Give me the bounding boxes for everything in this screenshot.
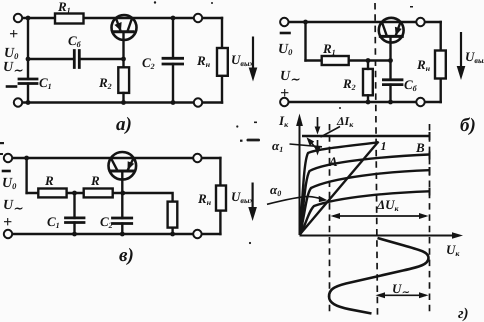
wire: branch down from top rail xyxy=(304,22,306,61)
svg-text:+: + xyxy=(9,26,18,43)
terminal: input top circuit a xyxy=(14,14,22,22)
U~ arrowhead left xyxy=(376,292,386,298)
capacitor C1 circuit v xyxy=(73,193,75,234)
svg-text:а): а) xyxy=(116,114,132,135)
capacitor C5 (Cb) xyxy=(74,51,79,68)
resistor R first circuit v xyxy=(38,189,66,198)
capacitor C2 with vertical wire xyxy=(172,18,174,103)
delta Ik arrowhead upper xyxy=(315,127,321,135)
svg-text:б): б) xyxy=(460,115,476,136)
wire: top rail of circuit a xyxy=(22,17,222,19)
wire: bottom rail of circuit a xyxy=(22,101,222,103)
resistor R second circuit v xyxy=(84,189,113,198)
alpha0 arrowhead xyxy=(319,196,328,202)
alpha1 pointer line xyxy=(290,144,323,147)
terminal: input top circuit b xyxy=(280,18,288,26)
U~ double arrow below axis xyxy=(379,294,427,296)
terminal: input bottom circuit v xyxy=(4,230,12,238)
wire: top rail of circuit v xyxy=(12,157,220,159)
emitter arrow transistor a xyxy=(114,22,121,31)
wire: base lead xyxy=(122,32,124,59)
wire: branch down to middle row xyxy=(25,158,27,193)
resistor R2 circuit b xyxy=(363,69,373,95)
svg-text:A: A xyxy=(328,154,338,169)
terminal: input top circuit v xyxy=(4,154,12,162)
terminal: output bottom circuit b xyxy=(416,98,424,106)
wire: right vertical with Rn circuit v xyxy=(219,158,221,234)
terminal: output bottom circuit a xyxy=(194,98,202,106)
minus sign circuit v xyxy=(3,170,10,173)
terminal: output top circuit v xyxy=(193,154,201,162)
svg-text:B: B xyxy=(415,140,425,155)
wire: middle row to base xyxy=(28,58,74,60)
svg-text:г): г) xyxy=(458,306,469,322)
resistor Rn load of circuit a xyxy=(217,48,228,76)
curve 4 xyxy=(300,191,429,234)
wire: base lead b xyxy=(389,36,391,60)
svg-text:R: R xyxy=(44,173,54,188)
wire: left vertical branch with C1 xyxy=(27,18,29,79)
delta Ik arrowhead lower xyxy=(314,146,321,156)
svg-text:R: R xyxy=(90,173,100,188)
minus sign circuit b xyxy=(281,32,290,35)
sine wave output xyxy=(329,238,429,314)
alpha0 swoop arrow xyxy=(267,197,323,205)
resistor Rn circuit b xyxy=(435,51,446,79)
wire: R2 bottom lead xyxy=(122,59,124,103)
axis Uk horizontal xyxy=(300,235,457,237)
resistor R1 xyxy=(55,14,84,24)
wire: top rail of circuit b xyxy=(288,21,441,23)
wire: base lead v xyxy=(121,171,123,193)
emitter arrow transistor v xyxy=(128,161,135,170)
wire: right vertical with Rn circuit b xyxy=(440,22,442,102)
delta Ik arrow upper xyxy=(317,117,319,130)
emitter arrow transistor b xyxy=(395,27,402,36)
terminal: input bottom circuit b xyxy=(280,98,288,106)
wire: R1 to base node xyxy=(349,59,391,61)
minus sign circuit a xyxy=(7,85,16,88)
resistor Rn circuit v xyxy=(216,186,226,211)
wire: emitter branch to resistor xyxy=(123,193,173,234)
terminal: output top circuit a xyxy=(194,14,202,22)
svg-text:+: + xyxy=(3,214,12,231)
curve end ticks at right dashed line xyxy=(429,132,431,196)
svg-text:1: 1 xyxy=(381,139,387,153)
resistor (emitter) circuit v xyxy=(168,202,178,228)
capacitor C1 xyxy=(19,79,37,84)
dashed line left xyxy=(329,124,331,316)
transistor VT v xyxy=(109,152,137,180)
transistor VT b xyxy=(379,18,404,43)
scan smudge marks xyxy=(0,1,413,244)
terminal: input bottom circuit a xyxy=(14,98,22,106)
axis Ik vertical xyxy=(299,120,301,235)
wire: row to R1 xyxy=(306,59,322,61)
curve top line xyxy=(302,135,430,137)
delta Ik arrow lower xyxy=(317,140,319,148)
svg-text:+: + xyxy=(280,85,289,102)
U~ arrowhead right xyxy=(419,292,429,298)
load line xyxy=(300,142,379,235)
graph arrowheads and filled marks xyxy=(296,114,463,299)
delta Ik annotation line from label xyxy=(321,127,341,138)
junction dots circuit a xyxy=(26,16,176,105)
capacitor C6 (Cb) circuit b xyxy=(389,61,391,103)
curve 3 xyxy=(300,170,429,234)
dashed line middle (through circuit b) xyxy=(375,3,378,316)
resistor R2 xyxy=(118,67,129,93)
junction dots circuit v xyxy=(24,156,175,237)
dashed line right xyxy=(429,124,431,316)
wire: right vertical with Rn xyxy=(221,18,223,103)
terminal: output bottom circuit v xyxy=(193,230,201,238)
capacitor C2 circuit v xyxy=(121,193,123,234)
delta Uk double arrow xyxy=(333,215,426,217)
curve 1 through point A and 1 xyxy=(300,142,379,233)
terminal: output top circuit b xyxy=(416,18,424,26)
axis Uk arrowhead xyxy=(452,232,463,239)
transistor VT a xyxy=(112,15,137,40)
wire: middle row v xyxy=(27,192,123,194)
wire: bottom rail of circuit b xyxy=(288,101,441,103)
svg-text:в): в) xyxy=(119,245,134,266)
delta Uk arrowhead left xyxy=(331,213,341,219)
small diagonal arrow to knee xyxy=(309,140,319,151)
knee arrowhead xyxy=(307,137,315,146)
junction dots circuit b xyxy=(303,20,402,105)
axis Ik arrowhead xyxy=(296,114,303,127)
resistor R1 circuit b xyxy=(322,56,349,65)
wire: bottom rail of circuit v xyxy=(12,233,220,235)
delta Uk arrowhead right xyxy=(419,213,429,219)
curve 2 xyxy=(300,155,429,234)
